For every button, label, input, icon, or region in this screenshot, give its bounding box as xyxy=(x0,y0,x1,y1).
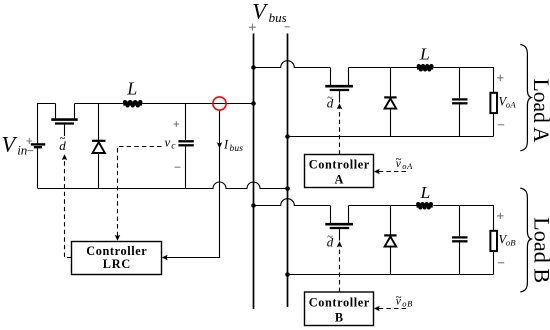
junction dots xyxy=(251,65,290,277)
svg-text:d: d xyxy=(327,96,334,111)
node right bus / converter B return xyxy=(285,272,290,277)
controller B box xyxy=(305,292,374,326)
svg-text:Controller: Controller xyxy=(86,244,147,258)
svg-text:oB: oB xyxy=(506,238,516,248)
label V_in minus xyxy=(28,150,34,152)
svg-text:oB: oB xyxy=(402,299,413,309)
brace Load B xyxy=(520,188,531,292)
left DC bus line (+) xyxy=(253,34,255,310)
arrow d1 at gate (up) xyxy=(62,154,68,160)
label V_in plus xyxy=(26,138,32,144)
svg-text:c: c xyxy=(171,142,176,152)
svg-text:Load B: Load B xyxy=(529,217,550,283)
transistor Q1 (source converter MOSFET) xyxy=(51,104,77,137)
svg-text:oA: oA xyxy=(402,161,413,171)
wire converter A top rail inductor to load xyxy=(433,68,493,93)
arrow v_oB into controller B (left) xyxy=(374,306,380,312)
node red sensing circle xyxy=(213,97,226,110)
dashed v_oA sense arrow into controller A xyxy=(379,171,407,173)
label v_c minus xyxy=(175,166,181,168)
node left bus / converter B rail xyxy=(251,203,256,208)
transistor Q2 (converter A MOSFET) xyxy=(325,68,353,103)
node left bus / converter A rail xyxy=(251,65,256,70)
dashed v_oB sense arrow into controller B xyxy=(379,308,407,310)
svg-text:LRC: LRC xyxy=(103,257,131,271)
label V_oA minus xyxy=(498,124,504,126)
svg-text:~: ~ xyxy=(396,154,402,166)
svg-text:d: d xyxy=(327,235,334,250)
brace Load A xyxy=(520,45,531,151)
node left bus / source rail xyxy=(251,101,256,106)
controller LRC box xyxy=(72,242,162,275)
label V_oB minus xyxy=(498,262,504,264)
svg-text:A: A xyxy=(335,172,344,186)
load resistor V_oB box xyxy=(490,231,497,275)
svg-text:L: L xyxy=(126,78,137,98)
capacitor C3 (converter B output) xyxy=(452,206,467,275)
label V_oA plus xyxy=(497,75,503,81)
node right bus / converter A return xyxy=(285,134,290,139)
wire source bottom rail with hops over I_bus line and left bus xyxy=(38,182,288,188)
source V_in battery wires xyxy=(38,104,56,145)
wire converter A top rail MOSFET to inductor xyxy=(349,67,417,69)
inductor L2 (converter A) xyxy=(417,64,434,71)
label V_oB plus xyxy=(497,213,503,219)
svg-text:Controller: Controller xyxy=(309,158,370,172)
svg-text:B: B xyxy=(335,310,343,324)
wire converter A top rail from left bus with hop over right bus xyxy=(254,61,331,68)
svg-text:oA: oA xyxy=(506,100,516,110)
arrow into controller LRC right edge (left) xyxy=(162,255,168,261)
label V_bus plus xyxy=(249,24,256,31)
dashed gate drive line d3 to converter B MOSFET xyxy=(339,246,341,292)
svg-text:bus: bus xyxy=(269,10,287,25)
dashed gate drive line d1 from controller LRC xyxy=(65,159,72,258)
svg-text:V: V xyxy=(252,0,268,24)
svg-text:bus: bus xyxy=(230,144,244,154)
svg-text:I: I xyxy=(223,138,229,152)
node right bus / source return xyxy=(285,186,290,191)
svg-text:L: L xyxy=(419,45,430,64)
svg-text:Controller: Controller xyxy=(309,296,370,310)
arrow d3 at gate B (up) xyxy=(337,241,343,247)
arrow v_oA into controller A (left) xyxy=(374,169,380,175)
capacitor C2 (converter A output) xyxy=(452,68,467,137)
inductor L1 (source) xyxy=(123,100,143,107)
controller A box xyxy=(305,155,374,188)
svg-text:L: L xyxy=(419,183,430,202)
label V_bus minus xyxy=(285,26,290,28)
arrow d2 at gate A (up) xyxy=(337,103,343,109)
svg-text:v: v xyxy=(165,134,171,149)
inductor L3 (converter B) xyxy=(416,202,433,209)
wire converter B top rail from left bus with hop over right bus xyxy=(254,199,331,206)
wire I_bus sense line down to Controller LRC xyxy=(164,110,220,258)
load resistor V_oA box xyxy=(490,93,497,137)
arrow v_c into controller LRC top (down) xyxy=(115,235,121,241)
wire converter B bottom rail xyxy=(288,274,494,276)
battery V_in plates xyxy=(31,144,45,147)
wire source top rail (MOSFET to inductor) xyxy=(75,103,124,105)
svg-text:V: V xyxy=(2,132,18,157)
label v_c plus xyxy=(174,121,180,127)
arrow I_bus mid (down) xyxy=(217,142,223,148)
svg-text:d: d xyxy=(59,138,66,153)
wire source top rail (inductor to left bus) xyxy=(142,103,254,105)
svg-text:Load A: Load A xyxy=(529,79,550,143)
wire converter B top rail MOSFET to inductor xyxy=(349,205,417,207)
dashed v_c sense line to controller LRC xyxy=(118,147,162,237)
polarity marks (gray) xyxy=(26,24,504,263)
wire battery bottom xyxy=(37,148,39,188)
arrowheads xyxy=(62,103,380,311)
svg-text:~: ~ xyxy=(396,291,402,303)
capacitor C1 (v_c) xyxy=(178,104,193,189)
diode D1 xyxy=(92,104,106,189)
wire converter A bottom rail xyxy=(288,136,494,138)
transistor Q3 (converter B MOSFET) xyxy=(325,206,353,241)
dashed gate drive line d2 to converter A MOSFET xyxy=(339,108,341,155)
right DC bus line (-) xyxy=(287,34,289,308)
svg-text:in: in xyxy=(17,142,27,157)
wire converter B top rail inductor to load xyxy=(433,206,493,231)
diode D3 (converter B) xyxy=(384,206,396,275)
diode D2 (converter A) xyxy=(384,68,396,137)
